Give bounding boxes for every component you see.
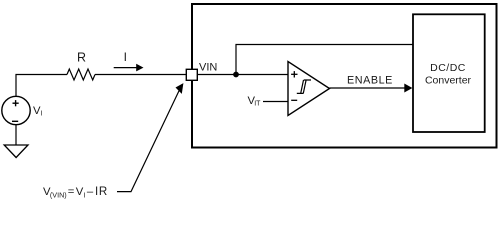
annotation leader line: [117, 85, 182, 192]
wire: comparator output (ENABLE) to DC/DC: [330, 87, 407, 89]
wire: VIT to comparator - input: [263, 101, 288, 103]
resistor R: [67, 69, 95, 80]
comparator - sign: [291, 99, 297, 101]
current arrow I: [114, 67, 138, 69]
voltage source VI: [2, 96, 30, 124]
IC outer box: [192, 4, 497, 148]
hysteresis symbol: [297, 80, 311, 93]
svg-text:DC/DC: DC/DC: [430, 62, 466, 74]
annotation arrowhead: [176, 83, 184, 94]
wire: resistor to VIN pin: [95, 74, 186, 76]
svg-text:I: I: [124, 50, 127, 64]
wire: source top to resistor: [16, 75, 67, 97]
ground: [4, 145, 28, 158]
junction dot: [233, 72, 239, 78]
svg-text:ENABLE: ENABLE: [347, 74, 393, 86]
svg-text:V: V: [76, 186, 84, 198]
wire: VIN pin to comparator + input: [197, 74, 288, 76]
comparator + sign: [293, 71, 295, 77]
svg-text:R: R: [77, 51, 86, 65]
svg-text:VIN: VIN: [199, 61, 217, 73]
svg-text:I: I: [84, 193, 86, 200]
wire: source bottom to ground: [15, 125, 17, 145]
DC/DC converter block U2: [413, 14, 485, 132]
svg-text:IR: IR: [95, 185, 108, 198]
svg-text:–: –: [87, 186, 94, 198]
svg-text:(VIN): (VIN): [50, 191, 67, 199]
svg-text:=: =: [68, 186, 75, 198]
svg-text:Converter: Converter: [425, 74, 472, 86]
VIN pin square: [186, 69, 197, 80]
wire: junction up and across to DC/DC: [236, 45, 413, 75]
comparator U1: [288, 62, 330, 116]
